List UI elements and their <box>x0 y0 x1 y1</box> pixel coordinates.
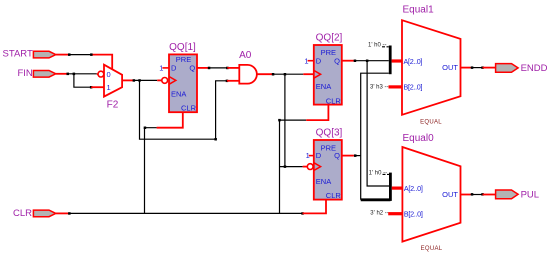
flip-flop QQ[2] <box>314 33 343 106</box>
flip-flop QQ[3] <box>314 128 343 201</box>
svg-text:D: D <box>316 151 322 160</box>
flip-flop QQ[1] <box>169 42 197 113</box>
svg-text:1: 1 <box>107 83 111 92</box>
constant 1 on QQ[3] D input <box>306 151 314 160</box>
svg-text:EQUAL: EQUAL <box>421 246 443 252</box>
svg-text:ENA: ENA <box>316 82 331 91</box>
input port START <box>3 49 56 60</box>
wire F2 output to QQ[1] clock <box>122 79 162 82</box>
svg-text:CLR: CLR <box>181 103 197 112</box>
wire A0 output branch down to QQ[3] clock <box>280 74 308 168</box>
svg-text:B[2..0]: B[2..0] <box>404 83 423 92</box>
wire FIN to F2 input 0 <box>56 73 98 76</box>
bubble on QQ[1] clock <box>162 78 168 84</box>
bus A[2..0] into Equal1 <box>392 59 402 62</box>
svg-text:QQ[2]: QQ[2] <box>316 33 343 44</box>
svg-text:0: 0 <box>107 70 111 79</box>
wire A0 output to QQ[2] clock <box>257 73 314 76</box>
wire QQ[1] Q to A0 upper input <box>197 67 239 70</box>
svg-text:QQ[1]: QQ[1] <box>169 42 196 53</box>
input port CLR <box>13 208 56 219</box>
svg-text:OUT: OUT <box>442 190 458 199</box>
svg-text:Equal0: Equal0 <box>403 133 435 144</box>
wire QQ[1] CLR to CLR net <box>144 112 183 213</box>
svg-text:A0: A0 <box>239 50 252 61</box>
svg-text:D: D <box>316 56 322 65</box>
svg-text:ENA: ENA <box>171 89 186 98</box>
wire CLR net to QQ[3] CLR <box>303 200 327 214</box>
comparator Equal1 <box>402 5 461 126</box>
wire QQ[3] Q to buses <box>342 73 390 200</box>
wire Equal0 OUT to PUL <box>461 193 496 196</box>
svg-text:OUT: OUT <box>442 63 458 72</box>
svg-text:1' h0 --: 1' h0 -- <box>369 170 388 176</box>
svg-text:CLR: CLR <box>13 208 32 219</box>
input port FIN <box>17 68 55 79</box>
bus assembly bar for Equal1 A input <box>368 42 392 74</box>
svg-text:PUL: PUL <box>521 190 539 201</box>
svg-text:Q: Q <box>334 56 340 65</box>
svg-text:F2: F2 <box>107 100 119 111</box>
wire START to F2 select <box>56 53 112 69</box>
constant 1 on QQ[2] D input <box>304 56 313 65</box>
svg-text:ENA: ENA <box>316 177 331 186</box>
svg-text:CLR: CLR <box>326 191 342 200</box>
wire QQ[2] CLR feed <box>278 105 328 214</box>
bubble on F2 input 0 <box>98 71 104 77</box>
svg-text:QQ[3]: QQ[3] <box>316 128 343 139</box>
constant 1 on QQ[1] D input <box>159 63 169 72</box>
bus A[2..0] into Equal0 <box>392 187 403 190</box>
svg-text:Equal1: Equal1 <box>403 5 435 16</box>
svg-text:3' h3 --: 3' h3 -- <box>370 85 389 91</box>
constant 3'h3 bus into Equal1 B <box>370 85 402 91</box>
wire F2 output branch to A0 lower input <box>140 80 240 141</box>
wire QQ[2] Q to bus <box>342 60 389 63</box>
output port ENDD <box>496 63 548 74</box>
mux F2 <box>104 65 122 111</box>
svg-text:FIN: FIN <box>17 68 32 79</box>
wire CLR net <box>56 212 304 215</box>
svg-text:START: START <box>3 49 33 60</box>
svg-text:3' h2 --: 3' h2 -- <box>370 211 389 217</box>
wire Equal1 OUT to ENDD <box>461 66 496 69</box>
comparator Equal0 <box>402 133 460 252</box>
svg-text:B[2..0]: B[2..0] <box>404 210 423 219</box>
svg-text:ENDD: ENDD <box>521 63 548 74</box>
constant 3'h2 bus into Equal0 B <box>370 211 402 217</box>
svg-text:CLR: CLR <box>326 96 342 105</box>
output port PUL <box>496 190 539 201</box>
svg-text:A[2..0]: A[2..0] <box>404 184 423 193</box>
svg-text:A[2..0]: A[2..0] <box>404 57 423 66</box>
wire FIN branch to F2 input 1 <box>74 74 104 89</box>
svg-text:1' h0 --: 1' h0 -- <box>368 42 387 48</box>
svg-text:Q: Q <box>189 64 195 73</box>
bubble on QQ[3] clock <box>307 164 313 170</box>
bus assembly bar for Equal0 A input <box>369 170 392 201</box>
svg-text:EQUAL: EQUAL <box>420 119 442 125</box>
wire QQ[2] Q branch down to Equal0 bus <box>367 61 389 186</box>
svg-text:D: D <box>171 64 177 73</box>
and gate A0 <box>239 50 257 84</box>
svg-text:Q: Q <box>334 151 340 160</box>
